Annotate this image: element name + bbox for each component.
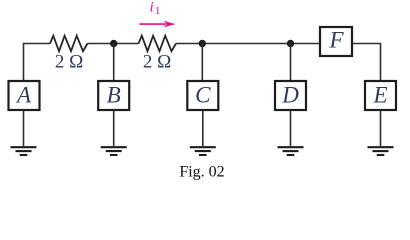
ground under C xyxy=(190,147,216,155)
ground under E xyxy=(368,147,394,155)
block F box with label xyxy=(320,27,352,56)
svg-text:B: B xyxy=(107,83,121,108)
svg-text:2 Ω: 2 Ω xyxy=(55,52,83,73)
wire: left branch from top rail corner down to box A xyxy=(24,44,51,81)
node junction dot above C xyxy=(199,40,206,47)
current arrow head i1 xyxy=(164,21,176,27)
wire: box A to ground xyxy=(23,110,25,146)
resistor R2 zigzag xyxy=(139,36,177,52)
svg-text:E: E xyxy=(372,83,387,108)
block A box with label xyxy=(9,81,40,110)
wire: box B to ground xyxy=(113,110,115,146)
block D box with label xyxy=(275,81,306,110)
node junction dot above B xyxy=(110,40,117,47)
wire: top rail from R1 to R2 xyxy=(88,43,139,45)
svg-text:i: i xyxy=(150,0,154,15)
svg-text:2 Ω: 2 Ω xyxy=(143,52,171,73)
block C box with label xyxy=(187,81,218,110)
block E box with label xyxy=(365,81,396,110)
svg-text:D: D xyxy=(281,83,299,108)
svg-text:C: C xyxy=(195,83,211,108)
resistor R1 zigzag xyxy=(50,36,88,52)
current arrow i1 (magenta) xyxy=(140,23,167,25)
wire: box E to ground xyxy=(380,110,382,146)
wire: from box F right side to corner and down to box E xyxy=(353,44,381,81)
block B box with label xyxy=(98,81,129,110)
wire: from node down to box C xyxy=(201,44,203,81)
wire: from node down to box B xyxy=(113,44,115,81)
svg-text:Fig. 02: Fig. 02 xyxy=(179,164,224,181)
wire: from node down to box D xyxy=(290,44,292,81)
svg-text:F: F xyxy=(328,28,344,53)
ground under D xyxy=(278,147,304,155)
svg-text:1: 1 xyxy=(155,5,161,17)
ground under B xyxy=(101,147,127,155)
svg-text:A: A xyxy=(15,83,32,108)
wire: box C to ground xyxy=(202,110,204,146)
wire: top rail from R2 to box F xyxy=(176,43,319,45)
wire: box D to ground xyxy=(290,110,292,146)
node junction dot above D xyxy=(287,40,294,47)
ground under A xyxy=(11,147,37,155)
